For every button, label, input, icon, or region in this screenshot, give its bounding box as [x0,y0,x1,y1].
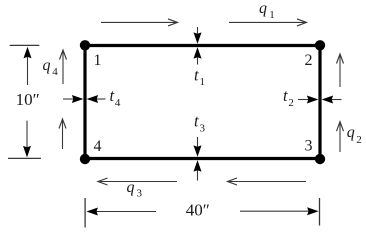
thickness t1 arrow up [194,47,202,64]
node 1 corner dot [80,40,90,50]
svg-text:1: 1 [269,9,275,21]
thickness t1 arrow down [194,27,202,44]
svg-text:q: q [43,57,51,74]
svg-text:3: 3 [305,138,313,155]
thickness t3 arrow up [194,160,202,180]
dimension 10in down arrow [23,121,31,158]
svg-text:2: 2 [305,52,313,69]
svg-text:t: t [283,86,288,105]
shear flow arrow q4 [60,50,67,84]
thickness t2 arrow right [298,96,318,104]
node 4 corner dot [80,154,90,164]
label t3 [194,112,206,135]
dimension 40in right tick [319,198,321,226]
svg-text:q: q [127,179,135,196]
svg-text:4: 4 [52,66,58,78]
label q3 [127,179,143,200]
svg-text:2: 2 [288,97,294,109]
svg-text:40″: 40″ [186,200,210,219]
dimension 40in right arrow [240,207,319,215]
svg-text:t: t [194,112,199,131]
svg-text:10″: 10″ [16,90,40,109]
svg-text:1: 1 [94,52,102,69]
thickness t2 arrow left [322,96,342,104]
wire: box walls (rectangle cell) [85,46,320,159]
svg-text:t: t [194,65,199,84]
node 3 corner dot [315,154,325,164]
svg-text:1: 1 [200,76,206,88]
shear flow arrow bottom-right (left) [228,178,307,185]
dimension 10in top tick [10,44,40,46]
dimension 40in left arrow [86,208,156,216]
label q2 [347,124,362,146]
svg-text:4: 4 [94,138,102,155]
dimension 10in up arrow [24,47,32,85]
label q4 [43,57,59,78]
shear flow arrow q3 [98,178,177,185]
label q1 [259,0,275,21]
svg-text:q: q [347,124,355,141]
dimension 40in left tick [84,198,86,228]
thickness t4 arrow left [87,95,106,103]
shear flow arrow q2 [337,122,344,152]
thickness t4 arrow right [63,95,83,103]
label t4 [110,86,121,109]
svg-text:q: q [259,0,267,17]
dimension 10in bottom tick [8,157,41,159]
shear flow arrow top-left [101,19,178,26]
svg-text:3: 3 [200,122,206,134]
label t2 [283,86,294,109]
shear flow arrow right-upper (up) [337,54,344,87]
svg-text:t: t [110,86,115,105]
thickness t3 arrow down [194,137,202,157]
label t1 [194,65,205,88]
node 2 corner dot [315,40,325,50]
shear flow arrow left-lower (up) [59,119,66,149]
svg-text:4: 4 [115,97,121,109]
svg-text:2: 2 [356,134,362,146]
svg-text:3: 3 [137,188,143,200]
shear flow arrow q1 [229,19,307,26]
